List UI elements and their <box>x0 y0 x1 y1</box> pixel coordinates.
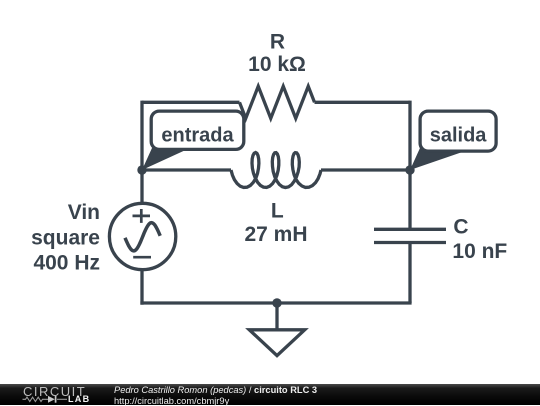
wire capacitor bottom <box>408 243 411 304</box>
logo resistor zigzag wire <box>23 397 68 401</box>
circuitlab logo <box>0 384 110 405</box>
wire middle left <box>142 168 231 171</box>
svg-text:Vin: Vin <box>68 201 100 224</box>
svg-text:R: R <box>270 30 285 53</box>
capacitor C plates <box>374 229 446 242</box>
voltage source sine wave <box>125 223 160 251</box>
svg-text:27 mH: 27 mH <box>244 223 307 246</box>
wire capacitor top <box>408 170 411 229</box>
svg-text:square: square <box>31 226 100 249</box>
svg-text:10 nF: 10 nF <box>452 240 507 263</box>
node salida dot <box>405 165 414 174</box>
salida bubble tail <box>410 148 474 170</box>
node ground dot <box>272 298 281 307</box>
entrada bubble tail <box>142 148 190 170</box>
footer credit text <box>114 386 317 395</box>
svg-text:10 kΩ: 10 kΩ <box>248 53 306 76</box>
minus sign <box>133 256 151 259</box>
svg-text:C: C <box>453 215 468 238</box>
footer url <box>114 396 229 406</box>
salida bubble <box>420 111 496 151</box>
wire left vertical top <box>140 101 143 204</box>
wire ground stub <box>275 303 278 330</box>
svg-text:400 Hz: 400 Hz <box>33 251 100 274</box>
svg-text:L: L <box>271 200 284 223</box>
voltage source V1 circle <box>109 203 175 269</box>
wire right vertical top <box>408 101 411 170</box>
entrada bubble <box>151 111 244 149</box>
inductor L <box>231 153 321 188</box>
plus sign <box>133 209 151 223</box>
wire middle right <box>321 168 410 171</box>
svg-text:entrada: entrada <box>161 125 234 147</box>
resistor R <box>240 86 315 118</box>
node entrada dot <box>137 165 146 174</box>
logo diode triangle <box>48 396 55 403</box>
wire top-left horizontal <box>142 101 240 104</box>
ground symbol <box>249 330 304 356</box>
footer bar <box>0 384 540 405</box>
svg-text:LAB: LAB <box>68 394 90 404</box>
wire source bottom <box>140 270 143 305</box>
svg-text:salida: salida <box>430 125 488 147</box>
wire bottom horizontal <box>140 301 411 304</box>
wire top-right horizontal <box>315 101 411 104</box>
logo diode bar <box>55 396 57 403</box>
